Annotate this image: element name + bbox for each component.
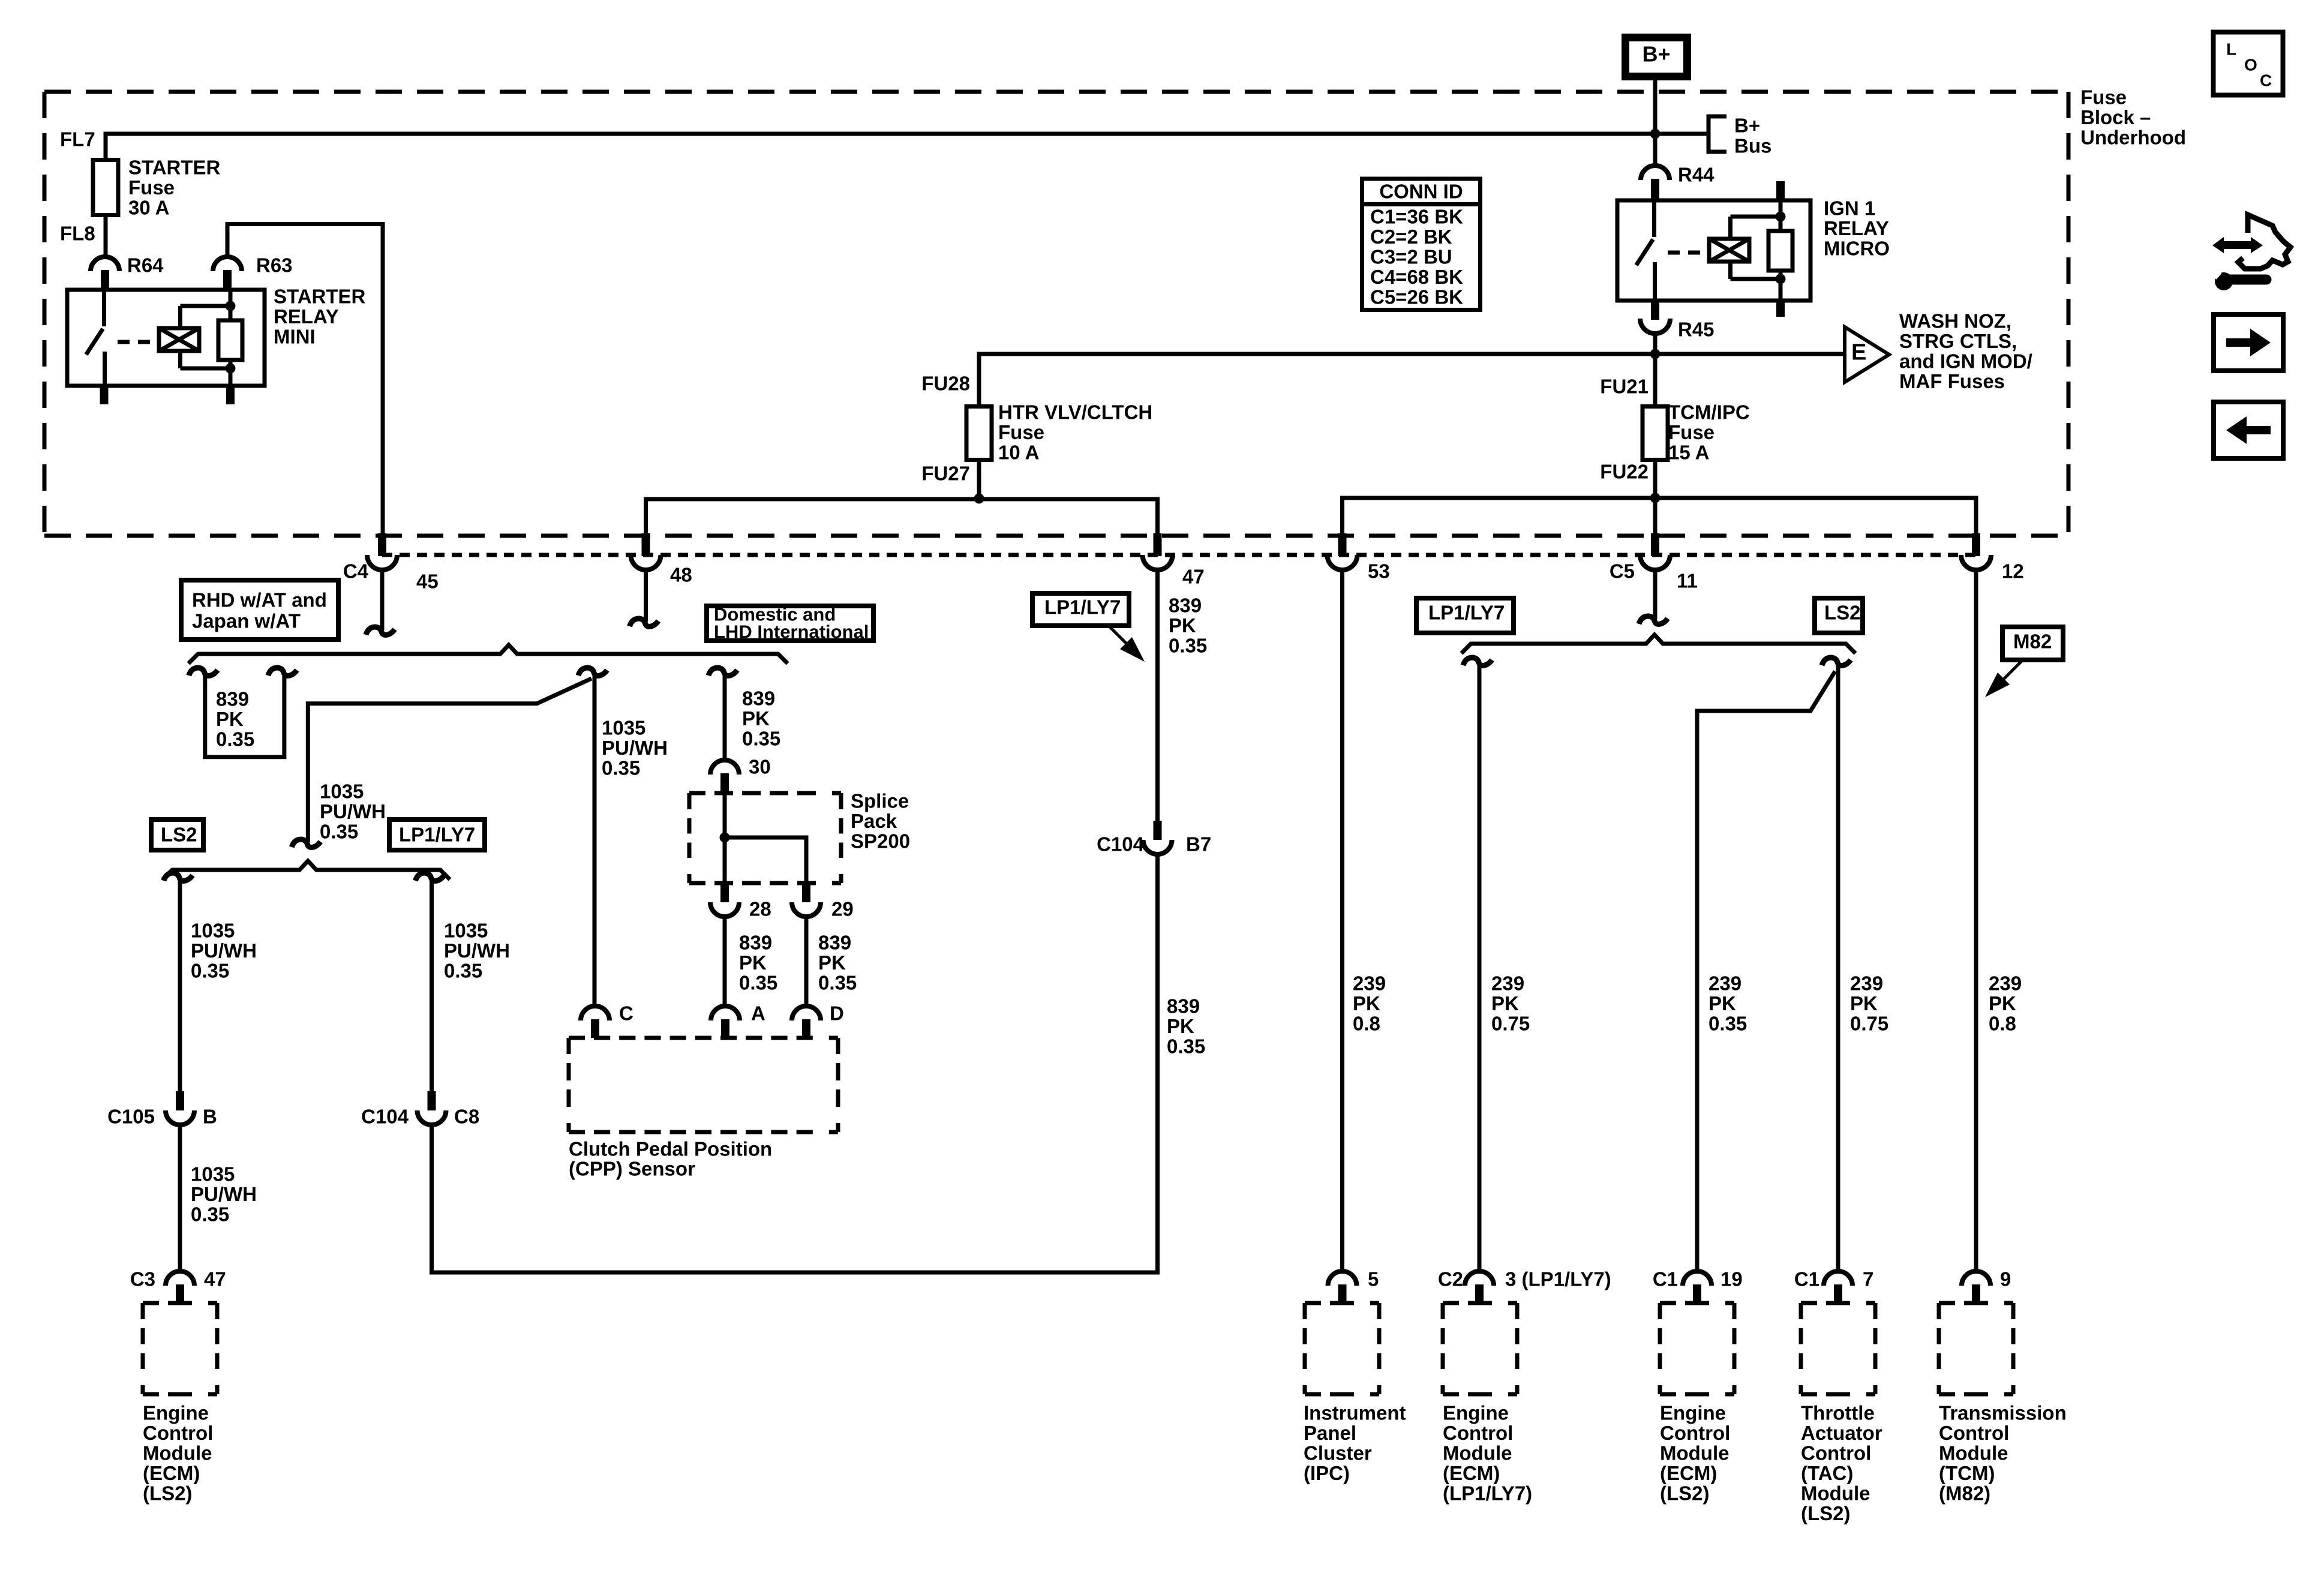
svg-text:(M82): (M82) xyxy=(1939,1482,1990,1505)
label Engine Control Module ECM LS2 left xyxy=(143,1402,213,1505)
svg-text:47: 47 xyxy=(1182,566,1205,588)
svg-text:SP200: SP200 xyxy=(851,830,910,852)
label TCM/IPC Fuse 15 A xyxy=(1668,401,1750,464)
starter relay resistor xyxy=(218,290,242,386)
svg-text:7: 7 xyxy=(1863,1268,1873,1290)
label box LS2 right xyxy=(1815,598,1863,633)
svg-text:(LS2): (LS2) xyxy=(143,1482,193,1505)
starter relay box xyxy=(67,290,265,386)
label Splice Pack SP200 xyxy=(851,790,910,852)
label box LP1/LY7 arrow xyxy=(1032,593,1145,662)
junction node IGN relay coil-resistor top xyxy=(1776,212,1786,222)
TCM dashed box xyxy=(1939,1301,2013,1305)
svg-text:47: 47 xyxy=(204,1268,226,1290)
svg-text:PK: PK xyxy=(739,951,767,974)
IGN relay resistor xyxy=(1768,200,1792,301)
svg-text:1035: 1035 xyxy=(191,1163,235,1185)
svg-text:(LS2): (LS2) xyxy=(1660,1482,1710,1505)
B+ Bus bracket symbol xyxy=(1709,115,1771,157)
svg-text:STARTER: STARTER xyxy=(274,286,366,308)
junction node IGN relay coil-resistor bottom xyxy=(1776,274,1786,284)
svg-text:Module: Module xyxy=(143,1442,212,1464)
svg-text:0.35: 0.35 xyxy=(602,757,640,779)
svg-text:Module: Module xyxy=(1801,1482,1870,1505)
wire brace3 to TAC pin 7 xyxy=(1836,664,1840,1272)
svg-text:PK: PK xyxy=(1850,992,1878,1014)
svg-text:LP1/LY7: LP1/LY7 xyxy=(1428,602,1505,624)
svg-text:C4=68 BK: C4=68 BK xyxy=(1370,266,1463,288)
label box LP1/LY7 left xyxy=(389,819,485,850)
CONN ID table xyxy=(1360,179,1482,310)
label Engine Control Module ECM LS2 right xyxy=(1660,1402,1730,1505)
junction node FU27-bus C xyxy=(974,494,984,504)
terminal curl branch ECM LP1 xyxy=(1463,658,1492,665)
terminal curl branch 839 left xyxy=(189,668,218,676)
svg-text:MICRO: MICRO xyxy=(1824,238,1890,260)
icon arrow previous box xyxy=(2214,402,2283,458)
connector C4 pin 53 xyxy=(1338,533,1347,556)
icon LOC box xyxy=(2214,32,2283,95)
svg-text:C104: C104 xyxy=(1097,833,1145,855)
svg-text:CONN ID: CONN ID xyxy=(1379,181,1463,203)
wire bus FL7 to B+ Bus xyxy=(106,134,1709,160)
terminal curl branch splice feed xyxy=(708,668,737,676)
connector ECM C2 pin 3 xyxy=(1465,1271,1494,1286)
svg-text:C: C xyxy=(2260,71,2272,90)
junction node R45-E line xyxy=(1650,349,1661,359)
svg-text:RELAY: RELAY xyxy=(1824,217,1889,239)
IGN relay coil xyxy=(1709,217,1780,279)
wire pin 29 to CPP D xyxy=(804,917,809,1006)
terminal curl pin 11 xyxy=(1639,616,1668,624)
wire C104 C8 loop to B7 xyxy=(432,854,1158,1272)
junction node splice xyxy=(720,833,730,843)
wire bus C feeding pins 48 and 47 xyxy=(646,499,1158,535)
starter relay bottom pins xyxy=(100,386,235,404)
svg-text:C2: C2 xyxy=(1438,1268,1463,1290)
svg-text:(ECM): (ECM) xyxy=(1660,1462,1717,1484)
label STARTER RELAY MINI xyxy=(274,286,366,348)
svg-text:Block –: Block – xyxy=(2080,106,2151,128)
svg-text:Underhood: Underhood xyxy=(2080,127,2186,149)
label 1035 PU/WH 0.35 mid xyxy=(320,781,386,843)
svg-text:Panel: Panel xyxy=(1304,1422,1356,1444)
svg-text:(CPP) Sensor: (CPP) Sensor xyxy=(569,1158,695,1180)
wire B+ to bus A xyxy=(1653,80,1658,134)
svg-text:RHD w/AT and: RHD w/AT and xyxy=(192,589,327,611)
label 839 PK 0.35 pin47 xyxy=(1169,595,1207,657)
svg-text:0.75: 0.75 xyxy=(1850,1013,1888,1035)
svg-text:FU28: FU28 xyxy=(921,373,970,395)
label 239 PK 0.8 TCM xyxy=(1989,972,2022,1035)
connector pin 28 xyxy=(720,883,729,902)
svg-text:Control: Control xyxy=(143,1422,213,1444)
svg-text:Splice: Splice xyxy=(851,790,909,812)
label box RHD w/AT and Japan w/AT xyxy=(181,580,338,640)
svg-text:Clutch Pedal Position: Clutch Pedal Position xyxy=(569,1138,772,1160)
svg-text:C5=26 BK: C5=26 BK xyxy=(1370,286,1463,308)
svg-text:PK: PK xyxy=(1353,992,1380,1014)
IGN relay actuating dashes xyxy=(1668,251,1711,255)
svg-text:Engine: Engine xyxy=(1660,1402,1726,1424)
connector C5 pin 12 xyxy=(1972,533,1980,556)
fuse block underhood dashed boundary box xyxy=(44,92,2068,536)
svg-text:M82: M82 xyxy=(2013,631,2052,653)
svg-text:PK: PK xyxy=(1709,992,1736,1014)
svg-text:0.8: 0.8 xyxy=(1989,1013,2016,1035)
svg-text:PU/WH: PU/WH xyxy=(191,1183,257,1205)
svg-text:LS2: LS2 xyxy=(161,824,197,846)
label Throttle Actuator Control TAC Module LS2 xyxy=(1801,1402,1882,1525)
svg-text:0.8: 0.8 xyxy=(1353,1013,1380,1035)
svg-text:0.35: 0.35 xyxy=(320,821,358,843)
svg-text:WASH NOZ,: WASH NOZ, xyxy=(1899,310,2011,332)
wire R63 up and over to connector 45 xyxy=(227,224,383,535)
svg-text:239: 239 xyxy=(1709,972,1742,995)
IGN relay switch xyxy=(1637,200,1655,301)
wire pin 48 stub end xyxy=(644,571,648,622)
svg-text:(LP1/LY7): (LP1/LY7) xyxy=(1443,1482,1532,1505)
svg-text:Fuse: Fuse xyxy=(128,176,175,199)
svg-text:PK: PK xyxy=(1169,614,1196,637)
wire FU27 to bus C xyxy=(977,460,981,499)
svg-text:FL7: FL7 xyxy=(60,128,95,151)
label 839 PK 0.35 bracket xyxy=(216,688,254,751)
fuse STARTER Fuse 30A xyxy=(93,160,118,215)
svg-text:(TCM): (TCM) xyxy=(1939,1462,1995,1484)
connector R63 xyxy=(213,257,242,290)
svg-text:FU22: FU22 xyxy=(1600,461,1649,483)
svg-text:Module: Module xyxy=(1443,1442,1512,1464)
label Engine Control Module ECM LP1/LY7 xyxy=(1443,1402,1532,1505)
svg-text:Control: Control xyxy=(1660,1422,1730,1444)
svg-text:TCM/IPC: TCM/IPC xyxy=(1668,401,1750,424)
wire FU22 to bus D xyxy=(1653,460,1658,499)
terminal curl branch CPP feed xyxy=(578,668,607,676)
IPC dashed box xyxy=(1305,1301,1379,1305)
svg-text:30 A: 30 A xyxy=(128,197,169,219)
label box Domestic and LHD International xyxy=(707,604,873,643)
svg-text:0.35: 0.35 xyxy=(739,972,777,994)
svg-text:B+: B+ xyxy=(1734,115,1760,137)
connector line C4-C5 dotted xyxy=(382,553,1976,557)
wire brace3 to ECM C2 pin 3 xyxy=(1478,664,1482,1272)
svg-text:C5: C5 xyxy=(1610,560,1635,583)
svg-text:HTR VLV/CLTCH: HTR VLV/CLTCH xyxy=(998,401,1152,424)
svg-text:Engine: Engine xyxy=(1443,1402,1509,1424)
connector R64 xyxy=(91,257,119,290)
connector C105 pin B xyxy=(176,1091,184,1110)
svg-text:0.35: 0.35 xyxy=(191,960,229,982)
wire splice internal right xyxy=(725,837,806,883)
svg-text:1035: 1035 xyxy=(320,781,364,803)
svg-text:LS2: LS2 xyxy=(1824,602,1861,624)
connector TAC C1 pin 7 xyxy=(1824,1271,1852,1286)
junction node at B+ drop xyxy=(1650,129,1661,139)
connector CPP pin D xyxy=(792,1006,821,1020)
label HTR VLV/CLTCH Fuse 10 A xyxy=(998,401,1152,464)
svg-text:C8: C8 xyxy=(454,1106,479,1128)
svg-text:0.35: 0.35 xyxy=(1709,1013,1747,1035)
wire C105 to ECM C3 xyxy=(178,1125,182,1272)
wire pin 12 to TCM pin 9 xyxy=(1974,571,1978,1272)
svg-text:A: A xyxy=(751,1002,765,1025)
wire pin 53 to IPC pin 5 xyxy=(1340,571,1344,1272)
label 839 PK 0.35 splice feed xyxy=(742,688,780,750)
svg-text:53: 53 xyxy=(1368,560,1390,583)
wire pin 47 to C104 B7 xyxy=(1155,571,1160,821)
label Clutch Pedal Position CPP Sensor xyxy=(569,1138,772,1180)
label 239 PK 0.35 ECM LS2 xyxy=(1709,972,1747,1035)
starter relay coil xyxy=(159,306,230,368)
svg-text:0.35: 0.35 xyxy=(742,728,780,750)
svg-text:839: 839 xyxy=(1167,995,1200,1017)
svg-text:839: 839 xyxy=(742,688,775,710)
svg-text:C104: C104 xyxy=(361,1106,409,1128)
signal flow arrow E xyxy=(1845,327,1889,382)
label 1035 PU/WH 0.35 lower left xyxy=(191,1163,257,1226)
svg-text:Cluster: Cluster xyxy=(1304,1442,1372,1464)
connector TCM pin 9 xyxy=(1962,1271,1990,1286)
starter relay switch xyxy=(86,290,105,386)
terminal curl branch TAC xyxy=(1822,658,1851,665)
svg-text:Actuator: Actuator xyxy=(1801,1422,1882,1444)
splice pack SP200 dashed box xyxy=(689,791,841,795)
svg-text:Instrument: Instrument xyxy=(1304,1402,1406,1424)
power feed B+ box xyxy=(1626,38,1688,77)
ECM LS2 dashed box left xyxy=(143,1301,217,1305)
label Instrument Panel Cluster IPC xyxy=(1304,1402,1406,1485)
svg-text:Bus: Bus xyxy=(1734,135,1771,157)
connector IPC pin 5 xyxy=(1328,1271,1357,1286)
svg-text:(TAC): (TAC) xyxy=(1801,1462,1853,1484)
connector C3 pin 47 ECM xyxy=(166,1271,194,1286)
svg-text:239: 239 xyxy=(1850,972,1883,995)
terminal curl branch 839 right xyxy=(268,668,297,676)
label 239 PK 0.75 TAC xyxy=(1850,972,1888,1035)
label IGN 1 RELAY MICRO xyxy=(1824,197,1890,260)
svg-text:(LS2): (LS2) xyxy=(1801,1502,1851,1524)
wire 839 PK option bracket xyxy=(205,674,284,757)
svg-text:Control: Control xyxy=(1443,1422,1513,1444)
svg-text:Control: Control xyxy=(1939,1422,2009,1444)
svg-text:C3=2 BU: C3=2 BU xyxy=(1370,246,1452,268)
svg-text:1035: 1035 xyxy=(191,920,235,942)
connector C4 pin 45 xyxy=(378,533,386,556)
label 1035 PU/WH 0.35 right xyxy=(602,717,668,779)
label STARTER Fuse 30 A xyxy=(128,157,221,219)
svg-text:C: C xyxy=(619,1002,633,1025)
svg-text:48: 48 xyxy=(670,564,692,586)
svg-text:R45: R45 xyxy=(1678,319,1715,341)
svg-text:R64: R64 xyxy=(127,254,164,277)
svg-text:PK: PK xyxy=(216,708,244,730)
label Transmission Control Module TCM M82 xyxy=(1939,1402,2067,1505)
svg-text:PK: PK xyxy=(1989,992,2016,1014)
wire C5 pin 11 feed xyxy=(1653,498,1658,535)
wire bus A to R44 xyxy=(1653,134,1658,167)
svg-text:Transmission: Transmission xyxy=(1939,1402,2067,1424)
svg-text:PU/WH: PU/WH xyxy=(320,800,386,822)
connector C5 pin 11 xyxy=(1651,533,1659,556)
svg-text:839: 839 xyxy=(818,932,851,954)
svg-text:C3: C3 xyxy=(130,1268,155,1290)
IGN relay coil pins xyxy=(1776,181,1785,317)
options brace for C4 pins 45-48 xyxy=(188,645,788,664)
connector pin 29 xyxy=(802,883,810,902)
connector C4 pin 47 xyxy=(1154,533,1162,556)
connector CPP pin A xyxy=(711,1006,740,1020)
label 1035 PU/WH 0.35 upper left xyxy=(191,920,257,982)
svg-text:Module: Module xyxy=(1939,1442,2008,1464)
label 239 PK 0.8 IPC xyxy=(1353,972,1386,1035)
svg-text:839: 839 xyxy=(1169,595,1202,617)
svg-text:239: 239 xyxy=(1353,972,1386,995)
svg-text:PK: PK xyxy=(1167,1015,1194,1037)
wire diagonal split to ECM LS2 xyxy=(1697,671,1835,1272)
label box LP1/LY7 right xyxy=(1416,598,1514,633)
terminal curl branch C104 xyxy=(416,873,445,881)
svg-text:5: 5 xyxy=(1368,1268,1379,1290)
junction node starter relay coil-resistor bottom xyxy=(226,364,236,374)
svg-text:839: 839 xyxy=(739,932,772,954)
svg-text:239: 239 xyxy=(1989,972,2022,995)
wire splice internal left xyxy=(723,794,727,883)
options brace LP1/LY7 LS2 right xyxy=(1461,635,1855,653)
IGN relay box xyxy=(1617,200,1810,301)
svg-text:PK: PK xyxy=(742,707,770,730)
ECM LS2 dashed box right xyxy=(1660,1301,1734,1305)
svg-text:C4: C4 xyxy=(343,560,369,583)
svg-text:IGN 1: IGN 1 xyxy=(1824,197,1875,220)
svg-text:0.35: 0.35 xyxy=(216,728,254,751)
connector R45 xyxy=(1640,301,1670,334)
svg-text:O: O xyxy=(2244,56,2257,74)
terminal curl above brace 2 xyxy=(292,839,320,847)
wire FL8 to R64 xyxy=(104,215,108,259)
svg-text:Fuse: Fuse xyxy=(2080,86,2127,109)
svg-text:11: 11 xyxy=(1677,570,1698,592)
svg-text:Japan w/AT: Japan w/AT xyxy=(192,610,301,632)
svg-text:PK: PK xyxy=(818,951,846,974)
label 239 PK 0.75 ECM LP1 xyxy=(1491,972,1530,1035)
terminal curl pin 48 xyxy=(630,619,659,626)
CPP sensor dashed box xyxy=(569,1036,838,1040)
wire bus E line xyxy=(979,354,1845,407)
svg-text:3 (LP1/LY7): 3 (LP1/LY7) xyxy=(1505,1268,1611,1290)
svg-text:and IGN MOD/: and IGN MOD/ xyxy=(1899,350,2032,373)
wire brace2 to C105 xyxy=(178,879,182,1091)
svg-text:0.35: 0.35 xyxy=(1169,635,1207,657)
options brace LS2 LP1/LY7 left xyxy=(163,861,450,879)
svg-text:C1: C1 xyxy=(1794,1268,1819,1290)
wire brace2 to C104 C8 xyxy=(430,879,434,1091)
label 839 PK 0.35 under 29 xyxy=(818,932,857,994)
svg-text:Pack: Pack xyxy=(851,810,897,832)
connector C104 pin B7 xyxy=(1154,821,1162,840)
label 839 PK 0.35 lower xyxy=(1167,995,1205,1058)
starter relay actuating dashes xyxy=(118,340,161,344)
svg-text:PK: PK xyxy=(1491,992,1519,1014)
connector CPP pin C xyxy=(581,1006,609,1020)
svg-text:B: B xyxy=(203,1106,217,1128)
svg-text:Throttle: Throttle xyxy=(1801,1402,1875,1424)
wire pin 11 stub end xyxy=(1653,571,1658,619)
svg-text:Engine: Engine xyxy=(143,1402,209,1424)
svg-text:12: 12 xyxy=(2002,560,2024,583)
svg-text:LP1/LY7: LP1/LY7 xyxy=(1044,596,1121,619)
svg-text:0.35: 0.35 xyxy=(818,972,857,994)
wire pin 45 stub end xyxy=(380,571,385,630)
svg-text:FU27: FU27 xyxy=(921,463,970,485)
svg-text:45: 45 xyxy=(416,571,439,593)
svg-text:Module: Module xyxy=(1660,1442,1729,1464)
icon arrow next box xyxy=(2214,314,2283,371)
svg-text:L: L xyxy=(2226,40,2236,59)
svg-text:30: 30 xyxy=(749,756,771,778)
label 1035 PU/WH 0.35 upper right xyxy=(444,920,510,982)
label box M82 arrow xyxy=(1985,627,2063,697)
label 839 PK 0.35 under 28 xyxy=(739,932,777,994)
svg-text:C2=2 BK: C2=2 BK xyxy=(1370,226,1452,248)
svg-text:LP1/LY7: LP1/LY7 xyxy=(399,824,475,846)
svg-text:LHD International: LHD International xyxy=(714,622,869,643)
svg-text:FL8: FL8 xyxy=(60,223,95,245)
svg-text:239: 239 xyxy=(1491,972,1524,995)
label box LS2 left xyxy=(151,819,203,850)
svg-text:PU/WH: PU/WH xyxy=(602,737,668,759)
svg-text:15 A: 15 A xyxy=(1668,442,1709,464)
wire brace1 to CPP pin C xyxy=(593,674,597,1006)
svg-text:PU/WH: PU/WH xyxy=(191,939,257,962)
svg-text:0.35: 0.35 xyxy=(444,960,482,982)
svg-text:10 A: 10 A xyxy=(998,442,1039,464)
svg-text:(ECM): (ECM) xyxy=(143,1462,200,1484)
svg-text:MAF Fuses: MAF Fuses xyxy=(1899,370,2005,392)
svg-text:C1: C1 xyxy=(1653,1268,1678,1290)
label WASH NOZ STRG CTLS and IGN MOD MAF Fuses xyxy=(1899,310,2032,393)
svg-text:0.35: 0.35 xyxy=(1167,1035,1205,1058)
svg-text:B+: B+ xyxy=(1642,42,1670,67)
connector pin 30 xyxy=(710,760,739,794)
wire diagonal split to 1035 branch xyxy=(308,679,591,842)
wire brace1 to splice pin 30 xyxy=(723,674,727,760)
connector ECM C1 pin 19 xyxy=(1683,1271,1712,1286)
svg-text:MINI: MINI xyxy=(274,326,316,348)
svg-text:RELAY: RELAY xyxy=(274,305,339,328)
terminal curl pin 45 xyxy=(366,627,395,635)
svg-text:29: 29 xyxy=(831,898,854,920)
svg-text:B7: B7 xyxy=(1186,833,1211,855)
svg-text:STARTER: STARTER xyxy=(128,157,221,179)
svg-text:Control: Control xyxy=(1801,1442,1871,1464)
svg-text:(ECM): (ECM) xyxy=(1443,1462,1500,1484)
svg-text:Fuse: Fuse xyxy=(1668,421,1715,443)
svg-text:1035: 1035 xyxy=(444,920,488,942)
fuse HTR VLV/CLTCH 10A xyxy=(966,407,992,460)
svg-text:0.75: 0.75 xyxy=(1491,1013,1530,1035)
svg-text:9: 9 xyxy=(2000,1268,2011,1290)
svg-text:(IPC): (IPC) xyxy=(1304,1462,1350,1484)
svg-text:839: 839 xyxy=(216,688,249,710)
svg-text:28: 28 xyxy=(749,898,771,920)
label Fuse Block - Underhood xyxy=(2080,86,2186,149)
icon vehicle with wrench xyxy=(2206,215,2290,290)
svg-text:0.35: 0.35 xyxy=(191,1203,229,1226)
connector C4 pin 48 xyxy=(642,533,650,556)
fuse TCM/IPC 15A xyxy=(1643,407,1668,460)
terminal curl branch C105 xyxy=(164,873,193,881)
